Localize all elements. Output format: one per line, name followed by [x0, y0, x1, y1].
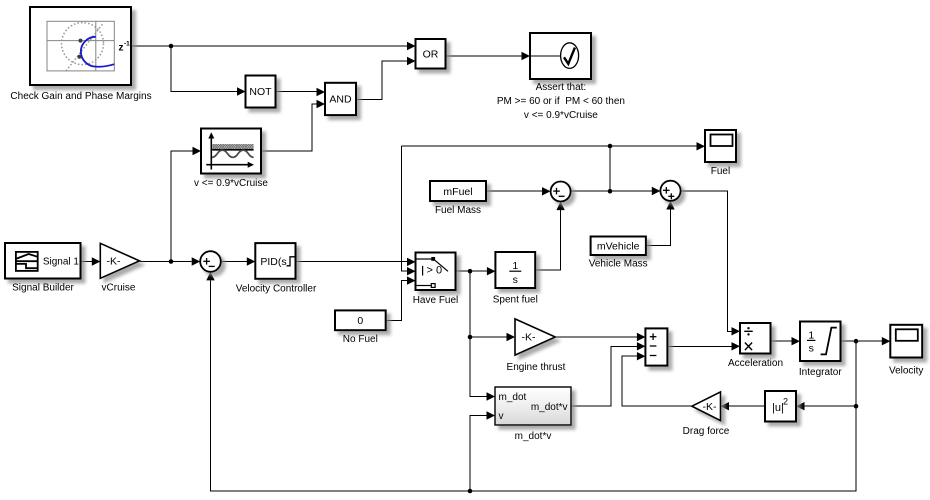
svg-text:Signal 1: Signal 1	[43, 257, 80, 268]
svg-text:m_dot*v: m_dot*v	[515, 431, 552, 442]
svg-text:v: v	[499, 411, 504, 422]
svg-text:No Fuel: No Fuel	[343, 334, 378, 345]
svg-text:1: 1	[808, 330, 814, 342]
svg-text:-K-: -K-	[107, 256, 122, 268]
svg-text:Velocity Controller: Velocity Controller	[236, 283, 317, 294]
svg-text:Check Gain and Phase Margins: Check Gain and Phase Margins	[10, 91, 151, 102]
svg-text:PM >= 60 or if PM < 60 then: PM >= 60 or if PM < 60 then	[497, 96, 625, 107]
svg-text:v <= 0.9*vCruise: v <= 0.9*vCruise	[524, 110, 598, 121]
svg-text:> 0: > 0	[427, 265, 443, 277]
svg-text:-1: -1	[124, 41, 130, 48]
svg-text:Have Fuel: Have Fuel	[413, 295, 459, 306]
svg-text:m_dot*v: m_dot*v	[531, 402, 568, 413]
svg-text:Integrator: Integrator	[799, 367, 842, 378]
svg-text:Velocity: Velocity	[889, 366, 923, 377]
svg-text:Fuel: Fuel	[711, 166, 730, 177]
svg-text:-K-: -K-	[703, 401, 718, 413]
svg-text:AND: AND	[329, 94, 352, 106]
svg-text:-K-: -K-	[522, 332, 537, 344]
svg-text:NOT: NOT	[249, 86, 272, 98]
svg-text:s: s	[513, 274, 518, 286]
svg-text:Assert that:: Assert that:	[536, 82, 587, 93]
svg-text:z: z	[119, 43, 124, 54]
svg-text:mFuel: mFuel	[443, 186, 472, 198]
svg-text:vCruise: vCruise	[102, 283, 136, 294]
svg-text:Engine thrust: Engine thrust	[507, 362, 566, 373]
svg-text:s: s	[809, 343, 814, 355]
svg-text:OR: OR	[423, 48, 439, 60]
svg-text:1: 1	[512, 260, 518, 272]
svg-text:Spent fuel: Spent fuel	[493, 295, 538, 306]
svg-text:Signal Builder: Signal Builder	[12, 283, 74, 294]
svg-text:v <= 0.9*vCruise: v <= 0.9*vCruise	[194, 178, 268, 189]
svg-text:Drag force: Drag force	[683, 426, 730, 437]
svg-text:Acceleration: Acceleration	[728, 358, 783, 369]
svg-text:0: 0	[357, 315, 363, 327]
svg-text:Vehicle Mass: Vehicle Mass	[589, 259, 648, 270]
svg-text:Fuel Mass: Fuel Mass	[435, 205, 481, 216]
svg-text:2: 2	[783, 397, 788, 407]
svg-text:mVehicle: mVehicle	[597, 241, 640, 253]
svg-text:PID(s: PID(s	[260, 256, 286, 268]
svg-text:m_dot: m_dot	[499, 392, 527, 403]
